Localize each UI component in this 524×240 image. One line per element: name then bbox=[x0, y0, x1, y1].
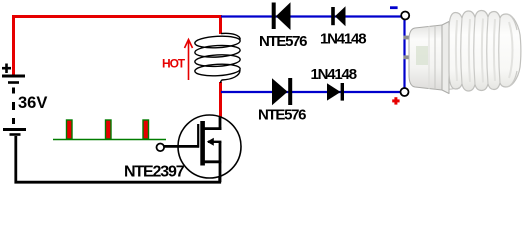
svg-text:NTE2397: NTE2397 bbox=[124, 164, 185, 181]
svg-text:1N4148: 1N4148 bbox=[320, 31, 366, 48]
svg-text:HOT: HOT bbox=[162, 57, 186, 71]
svg-text:NTE576: NTE576 bbox=[258, 107, 306, 124]
svg-text:36V: 36V bbox=[18, 94, 47, 112]
svg-text:NTE576: NTE576 bbox=[259, 33, 307, 50]
svg-text:1N4148: 1N4148 bbox=[311, 66, 357, 83]
